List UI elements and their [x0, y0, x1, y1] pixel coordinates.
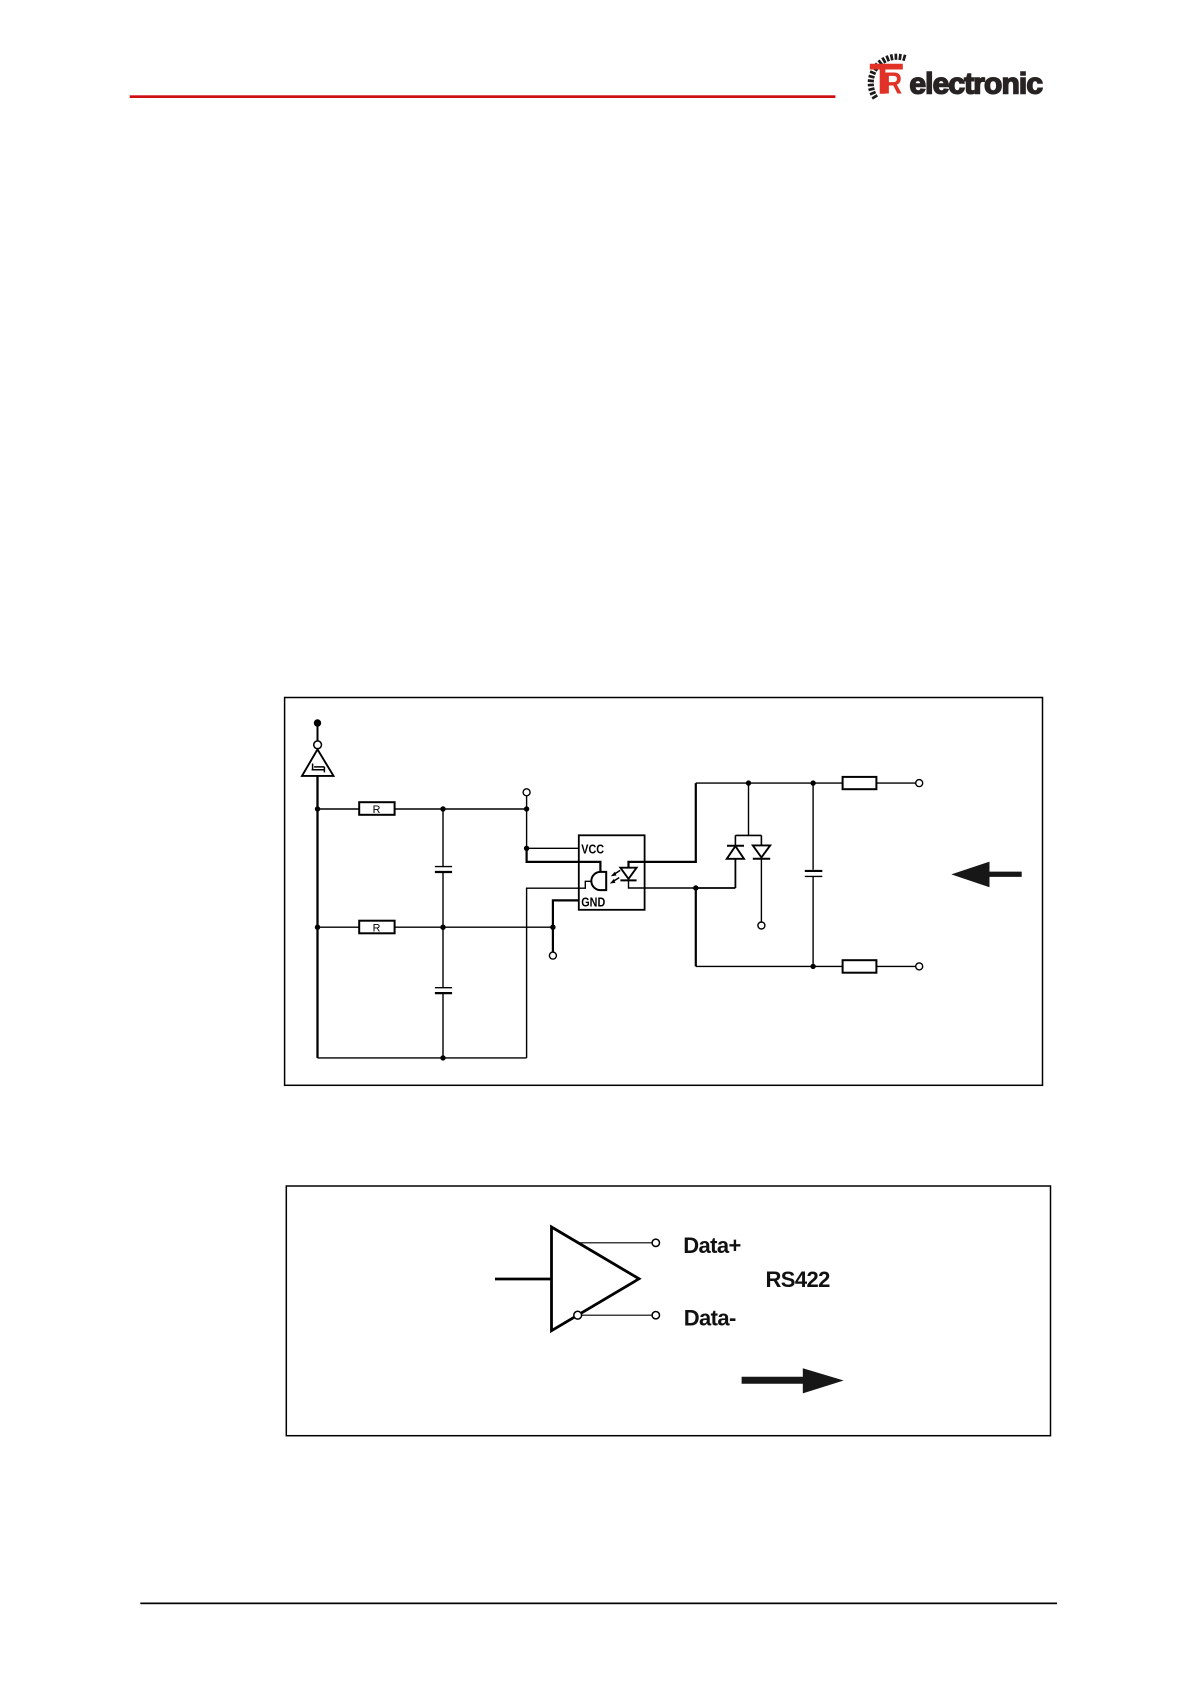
junction row2-bus: [315, 925, 320, 930]
ground terminal circle: [314, 741, 322, 749]
junction bottom-C2: [440, 1055, 445, 1060]
wire gate input return: [527, 888, 579, 1058]
svg-text:RS422: RS422: [766, 1267, 831, 1292]
wire VCC pin: [527, 847, 579, 849]
optocoupler U1 body: [579, 835, 645, 910]
capacitor C1 bottom lead: [442, 872, 444, 927]
diode pair bracket: [735, 835, 761, 845]
wire ground vertical bus: [316, 776, 318, 1058]
capacitor C2 bottom lead: [442, 993, 444, 1058]
junction feed-rail: [746, 780, 751, 785]
terminal circle Data-: [652, 1312, 659, 1319]
junction C3 top: [810, 780, 815, 785]
capacitor C3 bottom lead: [812, 876, 814, 966]
LED cathode bar: [620, 879, 636, 881]
direction arrow (left): [951, 862, 1021, 888]
svg-text:GND: GND: [581, 895, 605, 910]
capacitor C3 plates: [805, 870, 823, 872]
header rule: [130, 95, 836, 98]
terminal circle row1: [523, 789, 530, 796]
wire dot to ground terminal: [317, 723, 319, 741]
logo encoder tick marks: [868, 54, 905, 99]
svg-text:R: R: [373, 922, 381, 934]
machine ground symbol triangle: [302, 749, 334, 776]
capacitor C2 top lead: [442, 927, 444, 987]
svg-text:Data-: Data-: [684, 1305, 736, 1330]
wire Data+: [579, 1242, 652, 1244]
LED cathode wire out: [629, 880, 696, 888]
wire GND pin drop: [553, 900, 579, 952]
terminal circle D2: [758, 922, 765, 929]
junction row2-GND: [550, 925, 555, 930]
wire row2 rail: [318, 926, 553, 928]
terminal circle Data+: [652, 1239, 659, 1246]
svg-text:electronic: electronic: [909, 68, 1042, 101]
wire diode pair feed: [748, 783, 750, 835]
diode D2 (cathode down): [753, 845, 770, 921]
resistor R3: [843, 777, 877, 789]
inversion bubble: [574, 1311, 582, 1319]
resistor R (row1): [359, 802, 394, 816]
junction row2-C2: [440, 925, 445, 930]
terminal circle R4: [916, 963, 923, 970]
terminal circle R3: [916, 780, 923, 787]
svg-text:R: R: [373, 804, 381, 816]
capacitor C3 top lead: [812, 783, 814, 870]
diode D1 (cathode up): [727, 846, 744, 888]
wire Data-: [582, 1314, 652, 1316]
light arrow 2: [610, 878, 619, 884]
wire output down to bottom rail: [695, 888, 697, 966]
wire LED cathode to clamp diodes: [696, 887, 736, 889]
resistor R4: [843, 960, 877, 973]
junction VCC node: [524, 846, 529, 851]
figure 2 frame: [286, 1186, 1050, 1436]
machine ground inner mark: [312, 764, 325, 773]
capacitor C1 plates: [435, 866, 452, 868]
capacitor C2 plates: [435, 987, 452, 989]
LED anode wire to top rail: [629, 783, 696, 868]
wire terminal drop to VCC node: [526, 796, 528, 848]
detector gate: [591, 872, 606, 890]
figure 1 frame: [285, 698, 1043, 1086]
footer rule: [140, 1603, 1057, 1605]
direction arrow (right): [742, 1368, 844, 1393]
junction row1-terminal: [524, 806, 529, 811]
wire bottom rail right: [696, 965, 916, 967]
line driver input wire: [495, 1278, 552, 1281]
wire bottom rail: [318, 1057, 527, 1059]
wire VCC thick feed to detector: [527, 849, 601, 872]
svg-text:R: R: [883, 67, 902, 102]
wire row1 rail: [318, 808, 527, 810]
node dot above ground: [314, 719, 321, 726]
junction row1-resistor: [315, 806, 320, 811]
terminal circle GND: [549, 952, 556, 959]
junction row1-C1: [440, 806, 445, 811]
wire top rail right: [696, 782, 916, 784]
detector input notch: [579, 881, 592, 888]
logo letter T: [870, 64, 903, 94]
line driver triangle: [552, 1227, 640, 1331]
LED triangle: [620, 868, 636, 879]
capacitor C1 top lead: [442, 809, 444, 866]
svg-text:VCC: VCC: [581, 842, 604, 857]
light arrow 1: [611, 870, 620, 876]
resistor R (row2): [359, 921, 394, 935]
svg-text:Data+: Data+: [683, 1233, 741, 1258]
junction C3 bottom: [810, 964, 815, 969]
junction output node: [693, 885, 698, 890]
